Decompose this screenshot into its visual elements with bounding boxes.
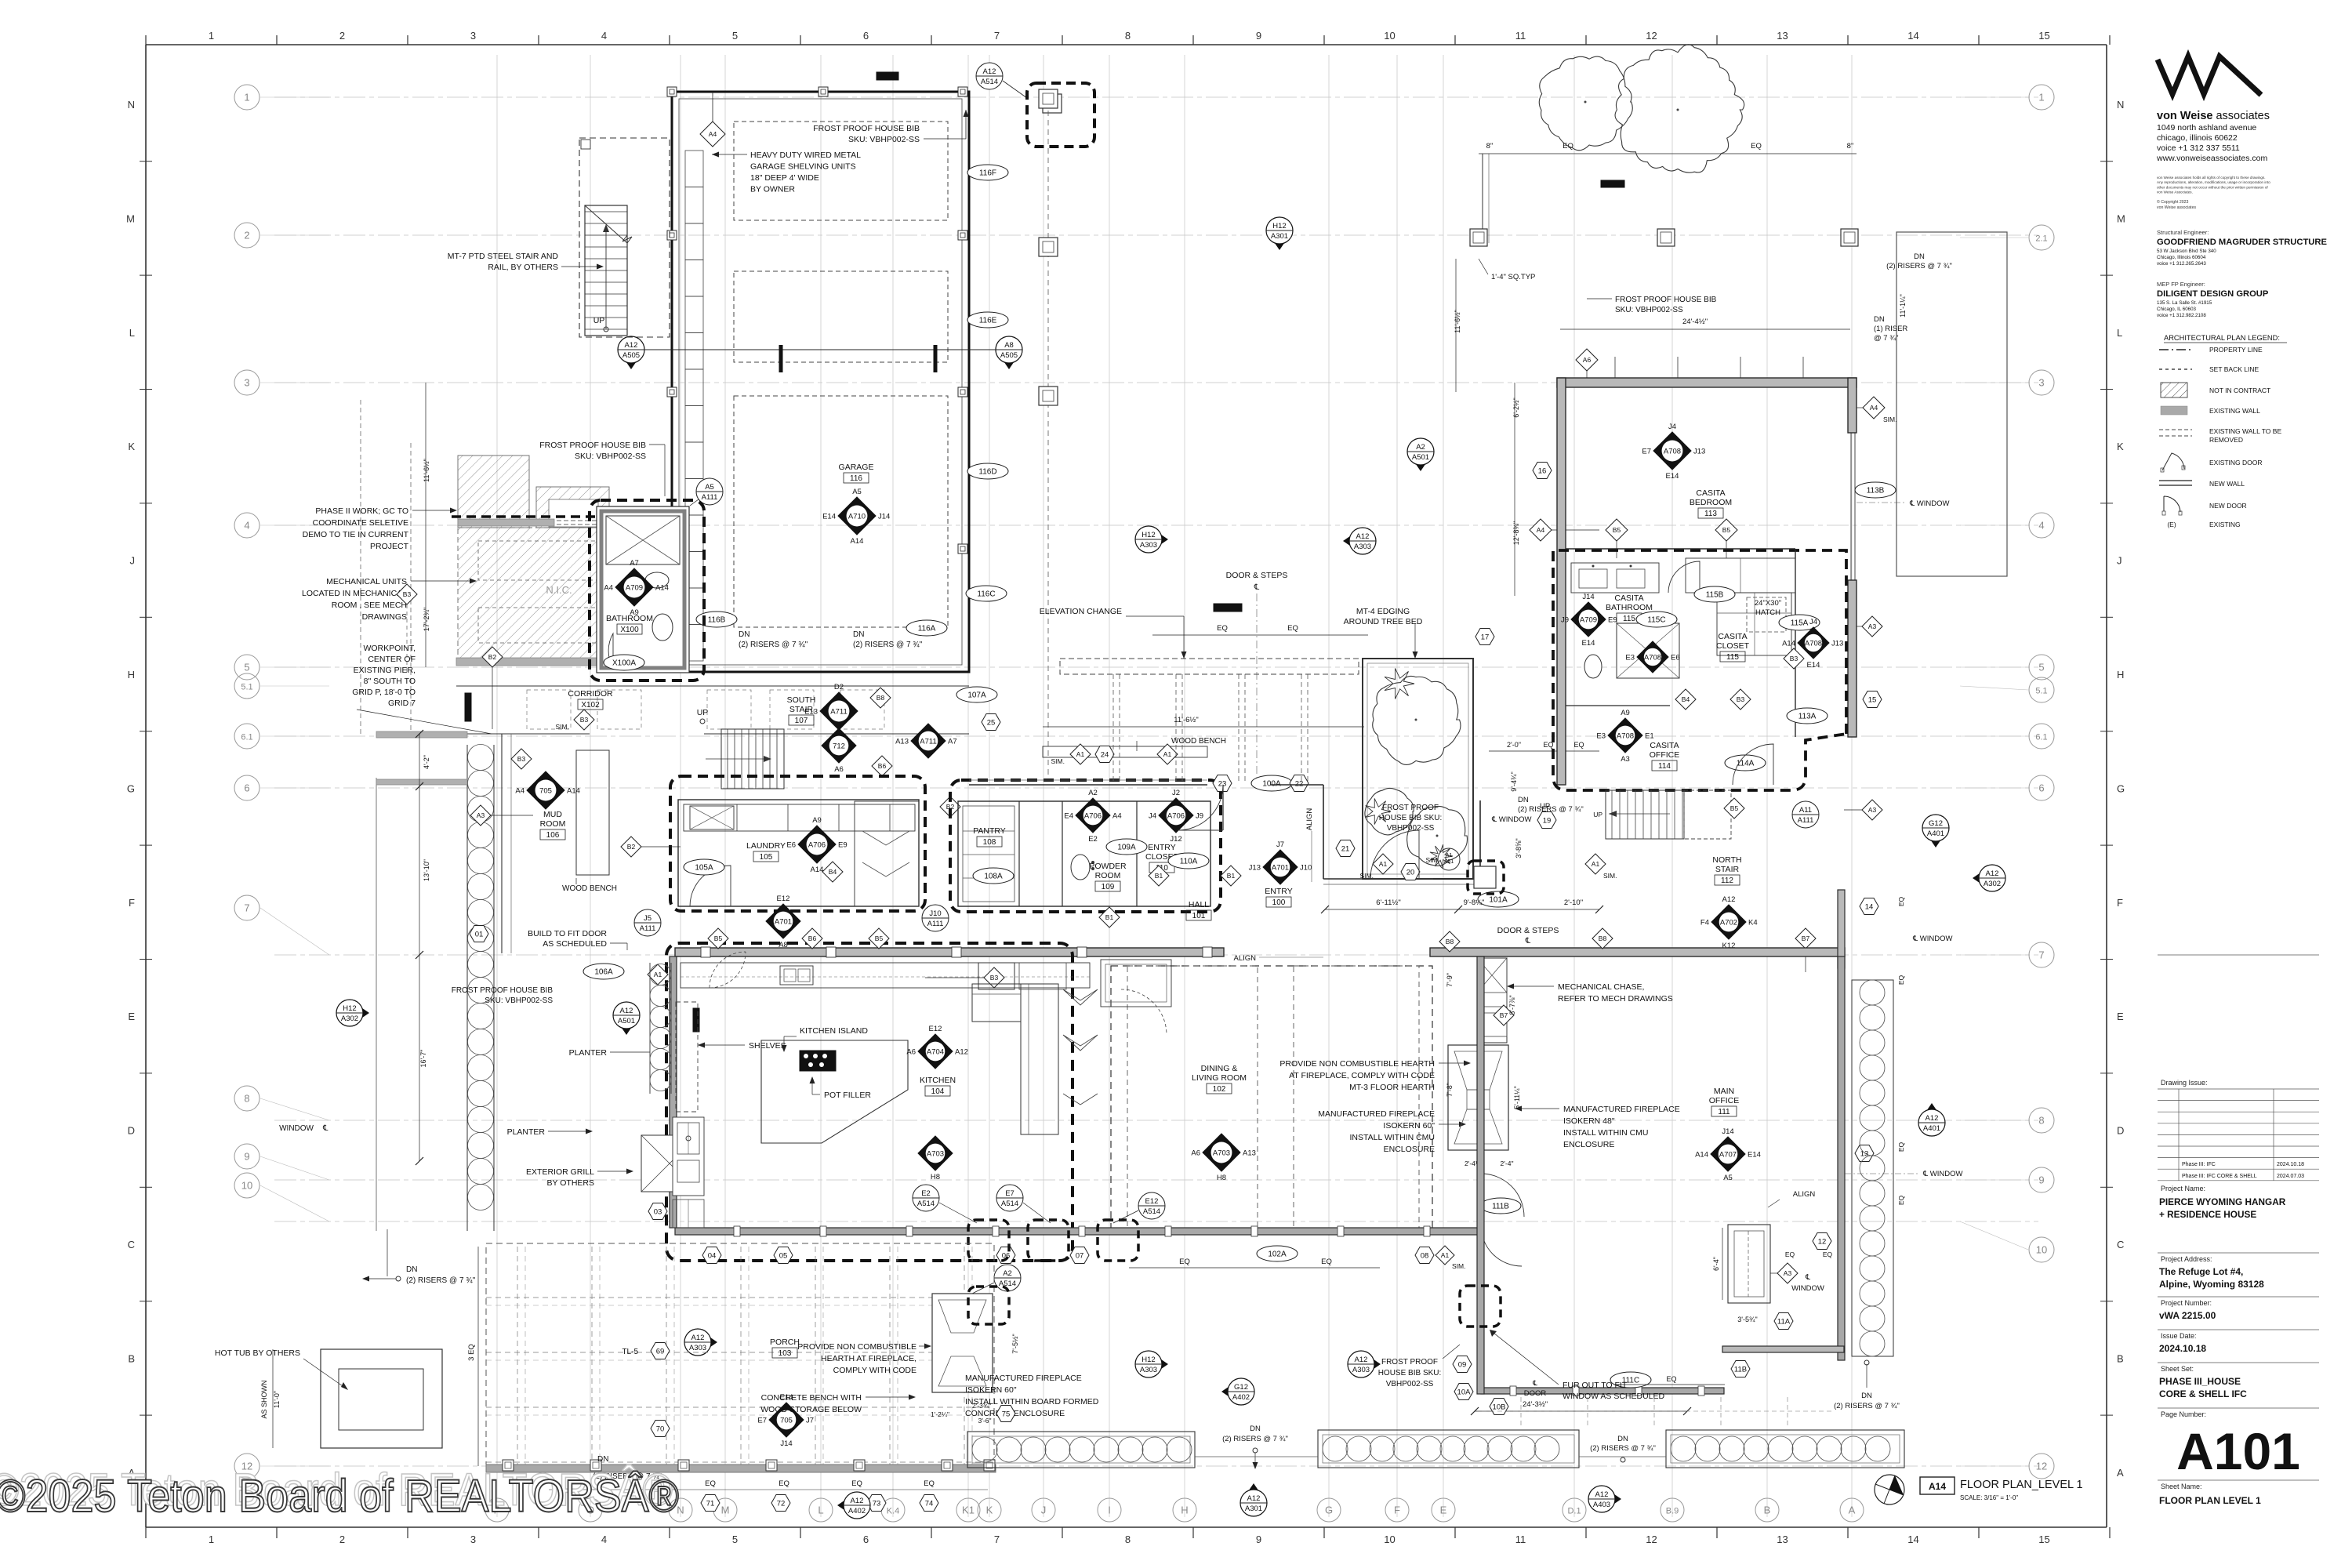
svg-text:EQ: EQ — [779, 1479, 789, 1488]
ellipse 115B — [1694, 586, 1735, 602]
svg-text:℄: ℄ — [1254, 583, 1260, 592]
svg-text:EQ: EQ — [924, 1479, 935, 1488]
svg-text:ENTRY: ENTRY — [1148, 843, 1175, 852]
marker diamond 712 south stair — [822, 728, 856, 763]
svg-text:MEP FP Engineer:: MEP FP Engineer: — [2157, 281, 2205, 288]
casita vanity — [1571, 563, 1659, 593]
kitchen door arc east — [1121, 989, 1167, 1035]
svg-text:E12: E12 — [777, 895, 790, 903]
svg-text:03: 03 — [654, 1208, 662, 1217]
svg-text:A401: A401 — [1927, 829, 1944, 838]
svg-text:4: 4 — [601, 30, 607, 42]
svg-text:(1) RISER: (1) RISER — [1874, 325, 1907, 333]
svg-text:X100: X100 — [620, 626, 639, 634]
svg-text:11: 11 — [1515, 30, 1526, 42]
open diamond B3 corridor — [574, 710, 594, 730]
svg-text:3: 3 — [470, 1534, 476, 1545]
svg-text:I: I — [1108, 1504, 1111, 1516]
svg-text:3: 3 — [2038, 377, 2044, 389]
hex 13 — [1855, 1145, 1874, 1162]
svg-text:116C: 116C — [977, 590, 995, 599]
svg-text:E7: E7 — [757, 1417, 767, 1425]
ellipse 101A — [1478, 891, 1519, 907]
svg-text:12: 12 — [1646, 1534, 1657, 1545]
door label ellipse 116C — [966, 586, 1007, 601]
svg-text:111B: 111B — [1492, 1203, 1509, 1211]
svg-text:E14: E14 — [1748, 1151, 1761, 1160]
svg-text:DN: DN — [739, 630, 750, 639]
marker diamond A12 A405 bottom — [1602, 1486, 1621, 1512]
svg-text:A710: A710 — [848, 513, 866, 521]
svg-text:ISOKERN 60": ISOKERN 60" — [1383, 1121, 1435, 1131]
marker diamond A701 entry — [1263, 850, 1298, 884]
svg-text:11B: 11B — [1734, 1366, 1747, 1374]
open diamond B4 casita — [1675, 689, 1696, 710]
svg-text:A302: A302 — [1984, 880, 2001, 888]
svg-text:8" SOUTH TO: 8" SOUTH TO — [364, 677, 416, 686]
svg-text:A12: A12 — [1355, 1356, 1368, 1364]
powder room sink — [1071, 855, 1090, 880]
diamond A3 planter — [470, 805, 491, 826]
tree canopy mid — [1407, 806, 1468, 866]
tree bed border — [1363, 659, 1473, 879]
svg-text:7'-8": 7'-8" — [1446, 1083, 1454, 1097]
svg-text:106A: 106A — [594, 968, 613, 977]
svg-text:19: 19 — [1543, 817, 1552, 826]
svg-text:LOCATED IN MECHANICAL: LOCATED IN MECHANICAL — [302, 589, 407, 598]
exterior grill — [641, 1135, 698, 1192]
svg-text:DRAWINGS: DRAWINGS — [362, 612, 407, 622]
svg-text:HEARTH AT FIREPLACE,: HEARTH AT FIREPLACE, — [821, 1354, 916, 1363]
svg-text:J13: J13 — [1249, 864, 1261, 873]
marker diamond A709 bathroom — [615, 568, 653, 606]
tree canopy large — [1373, 676, 1461, 764]
svg-text:08: 08 — [1421, 1252, 1429, 1261]
svg-text:712: 712 — [833, 742, 845, 751]
kitchen fridge — [1101, 960, 1171, 1007]
svg-text:9: 9 — [1256, 30, 1261, 42]
svg-text:24: 24 — [1101, 751, 1109, 760]
grill sink cabinet — [673, 1117, 704, 1196]
svg-text:DOOR & STEPS: DOOR & STEPS — [1497, 926, 1559, 935]
kitchen north wall — [675, 948, 1224, 956]
svg-text:A708: A708 — [1664, 448, 1681, 456]
steel stair dashed enclosure — [579, 138, 670, 337]
svg-text:A12: A12 — [955, 1048, 968, 1057]
pantry walls — [958, 801, 1210, 906]
legend existing wall — [2161, 406, 2187, 415]
sheet border frame — [146, 44, 2107, 45]
legend new door — [2164, 496, 2180, 512]
open diamond A4 court — [1530, 519, 1552, 541]
NIC west dashed line — [360, 400, 361, 737]
svg-text:B5: B5 — [1722, 526, 1731, 534]
svg-text:A706: A706 — [1167, 812, 1185, 821]
svg-text:6.1: 6.1 — [2035, 733, 2047, 742]
hex 09 — [1453, 1356, 1472, 1373]
svg-text:A303: A303 — [1352, 1366, 1370, 1374]
garage east column posts — [1039, 89, 1058, 108]
svg-text:1: 1 — [2038, 92, 2044, 103]
svg-text:13: 13 — [1777, 30, 1788, 42]
svg-text:MANUFACTURED FIREPLACE: MANUFACTURED FIREPLACE — [1563, 1105, 1680, 1114]
svg-text:voice +1 312.265.2643: voice +1 312.265.2643 — [2157, 261, 2206, 267]
svg-text:EQ: EQ — [1217, 624, 1228, 633]
svg-text:HOUSE BIB SKU:: HOUSE BIB SKU: — [1378, 1369, 1442, 1377]
marker diamond A708 casita office — [1608, 718, 1642, 753]
svg-text:D.1: D.1 — [1567, 1507, 1581, 1516]
E2 A514 callout — [913, 1185, 939, 1211]
svg-text:HALL: HALL — [1189, 900, 1209, 909]
svg-text:J13: J13 — [1831, 640, 1843, 648]
hex 15 — [1863, 691, 1882, 708]
svg-text:A14: A14 — [1929, 1481, 1946, 1492]
svg-text:70: 70 — [656, 1425, 665, 1434]
svg-text:A701: A701 — [775, 918, 792, 927]
marker H12 A303 bottom — [1149, 1351, 1168, 1377]
svg-text:J2: J2 — [1172, 789, 1180, 797]
svg-text:A14: A14 — [811, 866, 824, 874]
svg-text:A12: A12 — [625, 341, 638, 350]
svg-text:EQ: EQ — [1321, 1258, 1332, 1266]
black bar kitchen west 2 — [680, 1127, 686, 1150]
vestibule walls — [1323, 785, 1324, 879]
svg-text:www.vonweiseassociates.com: www.vonweiseassociates.com — [2156, 154, 2267, 163]
svg-text:107: 107 — [795, 717, 808, 725]
svg-text:E7: E7 — [1005, 1189, 1014, 1198]
wood bench entry — [1043, 746, 1207, 757]
right planter walls — [1852, 980, 1893, 1356]
svg-text:B3: B3 — [580, 716, 589, 724]
svg-text:BY OWNER: BY OWNER — [750, 185, 795, 194]
svg-text:100A: 100A — [1262, 780, 1281, 789]
svg-text:A514: A514 — [917, 1200, 935, 1208]
svg-text:115: 115 — [1623, 615, 1635, 623]
svg-text:115C: 115C — [1647, 616, 1665, 625]
black bar above garage — [877, 72, 898, 80]
open diamond B3 casita — [1730, 689, 1751, 710]
svg-text:E9: E9 — [1608, 616, 1617, 625]
svg-text:ELEVATION CHANGE: ELEVATION CHANGE — [1040, 607, 1122, 616]
svg-text:A14: A14 — [851, 537, 864, 546]
svg-text:A706: A706 — [1084, 812, 1102, 821]
svg-text:VBHP002-SS: VBHP002-SS — [1386, 1380, 1434, 1388]
svg-text:A1: A1 — [1446, 853, 1453, 858]
svg-text:75: 75 — [1002, 1410, 1011, 1419]
casita wardrobe — [1686, 558, 1795, 593]
hex 20 — [1401, 864, 1420, 880]
door ellipse X100A — [604, 655, 644, 670]
svg-text:2'-4": 2'-4" — [1501, 1160, 1514, 1167]
left planter walls — [466, 745, 468, 1231]
svg-text:B3: B3 — [1737, 695, 1745, 703]
north arrow compass — [1875, 1475, 1904, 1504]
svg-text:DOOR: DOOR — [1524, 1389, 1547, 1398]
open diamond B3 mud — [511, 749, 532, 769]
svg-text:2'-3¾": 2'-3¾" — [972, 1402, 991, 1410]
svg-text:A11: A11 — [1799, 806, 1812, 815]
ellipse 102A — [1257, 1246, 1298, 1261]
svg-text:B5: B5 — [1730, 804, 1739, 812]
svg-text:EQ: EQ — [1179, 1258, 1190, 1266]
open diamond A1 right sim — [1585, 854, 1606, 874]
svg-text:D: D — [2117, 1125, 2124, 1137]
open diamond A4 sim casita — [1863, 397, 1885, 419]
svg-text:6: 6 — [863, 1534, 869, 1545]
east pad rectangle — [1896, 232, 2007, 576]
svg-text:℄: ℄ — [1532, 1379, 1537, 1387]
casita closet shelves — [1717, 593, 1791, 655]
svg-text:A111: A111 — [927, 920, 944, 928]
svg-text:13: 13 — [1777, 1534, 1788, 1545]
svg-text:BUILD TO FIT DOOR: BUILD TO FIT DOOR — [528, 929, 607, 938]
svg-text:L: L — [818, 1504, 823, 1516]
svg-text:A4: A4 — [515, 787, 524, 796]
svg-text:7: 7 — [244, 902, 249, 914]
svg-text:©2025 Teton Board of REALTORSÂ: ©2025 Teton Board of REALTORSÂ® — [0, 1471, 679, 1522]
svg-text:J10: J10 — [1300, 864, 1312, 873]
svg-text:16'-7": 16'-7" — [419, 1050, 427, 1068]
bathroom X100 thick dashed boundary — [590, 500, 704, 681]
svg-text:(2) RISERS @ 7 ¾": (2) RISERS @ 7 ¾" — [853, 641, 923, 649]
svg-text:F: F — [129, 897, 135, 909]
row grid bubbles right — [2029, 85, 2054, 110]
svg-text:7: 7 — [994, 1534, 1000, 1545]
svg-text:A14: A14 — [1782, 640, 1795, 648]
svg-text:3 EQ: 3 EQ — [467, 1344, 476, 1361]
svg-text:PROVIDE NON COMBUSTIBLE: PROVIDE NON COMBUSTIBLE — [797, 1342, 916, 1352]
svg-text:4'-2": 4'-2" — [423, 755, 430, 769]
svg-text:CASITA: CASITA — [1718, 632, 1747, 641]
svg-text:H8: H8 — [931, 1173, 940, 1181]
mechanical chase — [1477, 958, 1507, 1043]
laundry door arc — [690, 866, 731, 906]
corridor dashed ceiling lines — [527, 690, 571, 729]
svg-text:A704: A704 — [927, 1048, 944, 1057]
svg-text:FROST PROOF HOUSE BIB: FROST PROOF HOUSE BIB — [813, 124, 920, 133]
svg-text:AS SCHEDULED: AS SCHEDULED — [543, 939, 607, 949]
vestibule door arc — [1370, 830, 1419, 879]
black wall bar left corridor — [465, 693, 471, 721]
svg-text:DN: DN — [853, 630, 864, 639]
svg-text:von Weise associates holds all: von Weise associates holds all rights of… — [2157, 176, 2266, 180]
svg-text:EQ: EQ — [1785, 1250, 1795, 1258]
row grid bubbles left — [234, 85, 260, 110]
terrace west wall stubs — [376, 731, 467, 738]
svg-text:M: M — [721, 1504, 730, 1516]
title block separator line — [2158, 954, 2319, 956]
west window wall kitchen — [670, 956, 677, 1228]
svg-text:MAIN: MAIN — [1714, 1087, 1734, 1096]
star plant top — [1385, 669, 1414, 699]
svg-text:M: M — [2117, 212, 2125, 224]
svg-text:DN: DN — [1874, 315, 1885, 324]
svg-text:Chicago, IL 60603: Chicago, IL 60603 — [2157, 307, 2197, 312]
svg-text:8: 8 — [1125, 1534, 1131, 1545]
svg-text:B1: B1 — [1227, 872, 1236, 880]
svg-text:DN: DN — [1861, 1392, 1872, 1400]
svg-text:6: 6 — [244, 782, 249, 794]
svg-text:A514: A514 — [981, 78, 998, 86]
svg-text:UP: UP — [697, 708, 709, 717]
svg-text:℄: ℄ — [1525, 937, 1531, 946]
svg-text:9: 9 — [244, 1151, 249, 1163]
kitchen island — [761, 1040, 908, 1143]
porch boundary dashed — [486, 1243, 994, 1469]
svg-text:Drawing Issue:: Drawing Issue: — [2161, 1079, 2208, 1087]
svg-text:3: 3 — [470, 30, 476, 42]
svg-text:E3: E3 — [1625, 654, 1635, 662]
svg-text:2'-0": 2'-0" — [1507, 741, 1521, 749]
svg-text:VBHP002-SS: VBHP002-SS — [1387, 824, 1435, 833]
dim 11-6 entry — [1043, 726, 1364, 728]
hex 22 — [1290, 775, 1308, 792]
issue date block — [2158, 1329, 2319, 1330]
kitchen west planter circles — [649, 963, 651, 1094]
svg-text:8: 8 — [2038, 1115, 2044, 1127]
svg-text:A13: A13 — [1243, 1149, 1256, 1158]
svg-text:101: 101 — [1192, 912, 1206, 920]
svg-text:EQ: EQ — [705, 1479, 716, 1488]
svg-text:J: J — [130, 555, 136, 567]
garage east column dashed line — [1047, 92, 1049, 776]
open diamond B5 kitchen top — [708, 928, 728, 949]
svg-text:A707: A707 — [1719, 1151, 1737, 1160]
svg-text:DN: DN — [1518, 796, 1529, 804]
svg-text:SKU: VBHP002-SS: SKU: VBHP002-SS — [848, 135, 920, 144]
svg-text:SKU: VBHP002-SS: SKU: VBHP002-SS — [575, 452, 646, 461]
svg-text:A514: A514 — [1001, 1200, 1018, 1208]
office south wall right — [1722, 1346, 1844, 1352]
svg-text:A1: A1 — [1379, 860, 1388, 868]
svg-text:CORE & SHELL IFC: CORE & SHELL IFC — [2159, 1388, 2247, 1399]
ellipse 111B — [1480, 1198, 1521, 1214]
open diamond B3 kitchen — [984, 967, 1004, 988]
svg-text:FLOOR PLAN LEVEL 1: FLOOR PLAN LEVEL 1 — [2159, 1495, 2261, 1506]
ellipse 115C — [1636, 612, 1677, 627]
svg-text:12: 12 — [1818, 1238, 1827, 1247]
svg-text:A514: A514 — [999, 1279, 1016, 1288]
open diamond B8 left — [1439, 931, 1460, 952]
svg-text:12'-8⅜": 12'-8⅜" — [1512, 521, 1520, 545]
svg-text:9'-4¾": 9'-4¾" — [1510, 771, 1518, 791]
svg-text:2024.10.18: 2024.10.18 — [2277, 1162, 2304, 1167]
svg-text:115: 115 — [1726, 653, 1739, 662]
black bar door steps — [1214, 604, 1242, 612]
svg-text:EXISTING PIER,: EXISTING PIER, — [354, 666, 416, 675]
marker diamond A704 kitchen — [918, 1034, 953, 1069]
marker diamond A706 laundry — [798, 826, 836, 863]
svg-text:A111: A111 — [640, 924, 656, 933]
svg-text:ENCLOSURE: ENCLOSURE — [1384, 1145, 1435, 1154]
svg-text:(2) RISERS @ 7 ¾": (2) RISERS @ 7 ¾" — [739, 641, 808, 649]
svg-text:A6: A6 — [1583, 356, 1592, 364]
svg-text:SIM.: SIM. — [1603, 872, 1617, 880]
south window wall kitchen — [675, 1228, 1481, 1235]
column grid bubbles bottom — [485, 1498, 509, 1522]
svg-text:11A: 11A — [1777, 1318, 1791, 1327]
svg-text:E: E — [1440, 1504, 1447, 1516]
callout J5 A111 — [634, 909, 661, 936]
svg-text:Project Name:: Project Name: — [2161, 1185, 2205, 1192]
living dining dashed rect inner — [1127, 966, 1258, 1229]
north stair dashed part — [1684, 790, 1731, 839]
svg-text:7'-5½": 7'-5½" — [1011, 1334, 1019, 1353]
svg-text:5: 5 — [244, 662, 249, 673]
svg-text:E14: E14 — [1807, 661, 1820, 670]
svg-text:NORTH: NORTH — [1712, 855, 1741, 865]
svg-text:113B: 113B — [1867, 487, 1885, 495]
casita interior wall office — [1566, 705, 1670, 706]
hex 11A — [1774, 1313, 1793, 1330]
svg-text:SIM.: SIM. — [1051, 757, 1065, 765]
casita interior wall bath top — [1566, 548, 1795, 550]
svg-text:116B: 116B — [708, 616, 726, 625]
svg-text:A514: A514 — [1143, 1207, 1160, 1216]
garage shelving units west wall — [685, 151, 703, 187]
svg-text:SIM.: SIM. — [1426, 856, 1439, 864]
laundry closet chevrons — [855, 801, 919, 906]
office south windows posts — [1510, 1386, 1516, 1396]
svg-text:113: 113 — [1704, 510, 1717, 518]
svg-text:X102: X102 — [581, 701, 600, 710]
open diamond B3 left — [397, 584, 417, 604]
door label ellipse 116F — [967, 165, 1008, 180]
svg-text:A1: A1 — [654, 971, 662, 978]
svg-text:H12: H12 — [1142, 1356, 1155, 1364]
legend new wall — [2159, 480, 2192, 481]
svg-text:ALIGN: ALIGN — [1793, 1190, 1816, 1199]
svg-text:REMOVED: REMOVED — [2209, 436, 2243, 444]
svg-text:BATHROOM: BATHROOM — [606, 614, 653, 623]
stair up arrow — [605, 227, 607, 329]
svg-text:H: H — [1181, 1504, 1188, 1516]
svg-text:101A: 101A — [1489, 896, 1508, 905]
svg-text:WINDOW: WINDOW — [1791, 1284, 1824, 1293]
bathroom toilet — [645, 572, 669, 588]
svg-text:PIERCE WYOMING HANGAR: PIERCE WYOMING HANGAR — [2159, 1196, 2286, 1207]
corridor walls — [456, 685, 969, 687]
svg-text:A501: A501 — [1412, 453, 1429, 462]
kitchen sink — [780, 966, 813, 985]
svg-text:UP: UP — [593, 316, 605, 325]
legend existing wall to be removed — [2159, 429, 2192, 430]
svg-text:KITCHEN ISLAND: KITCHEN ISLAND — [800, 1026, 868, 1036]
svg-text:DN: DN — [597, 1455, 608, 1464]
tree top right large — [1615, 45, 1744, 172]
concrete bench middle — [1318, 1430, 1579, 1468]
open diamond B5 kitchen top2 — [869, 928, 889, 949]
svg-text:A709: A709 — [626, 584, 643, 593]
svg-text:DOOR & STEPS: DOOR & STEPS — [1226, 571, 1288, 580]
svg-text:A706: A706 — [808, 841, 826, 850]
svg-text:DINING &: DINING & — [1201, 1064, 1238, 1073]
svg-text:CASITA: CASITA — [1614, 593, 1643, 603]
svg-text:EQ: EQ — [1897, 1142, 1905, 1152]
open diamond B6 kitchen top — [802, 928, 822, 949]
marker diamond A708 casita bed2 — [1798, 627, 1829, 659]
svg-text:8": 8" — [1847, 142, 1854, 151]
svg-text:vWA 2215.00: vWA 2215.00 — [2159, 1310, 2216, 1321]
svg-text:H: H — [2117, 669, 2124, 681]
svg-text:A711: A711 — [830, 708, 847, 717]
marker A12 A401 — [1918, 1103, 1945, 1123]
svg-text:B2: B2 — [488, 653, 497, 661]
marker G12 A401 — [1922, 828, 1949, 848]
svg-text:14: 14 — [1907, 1534, 1918, 1545]
dim line row 2.1 — [1479, 153, 1857, 154]
svg-text:K4: K4 — [1748, 919, 1758, 927]
